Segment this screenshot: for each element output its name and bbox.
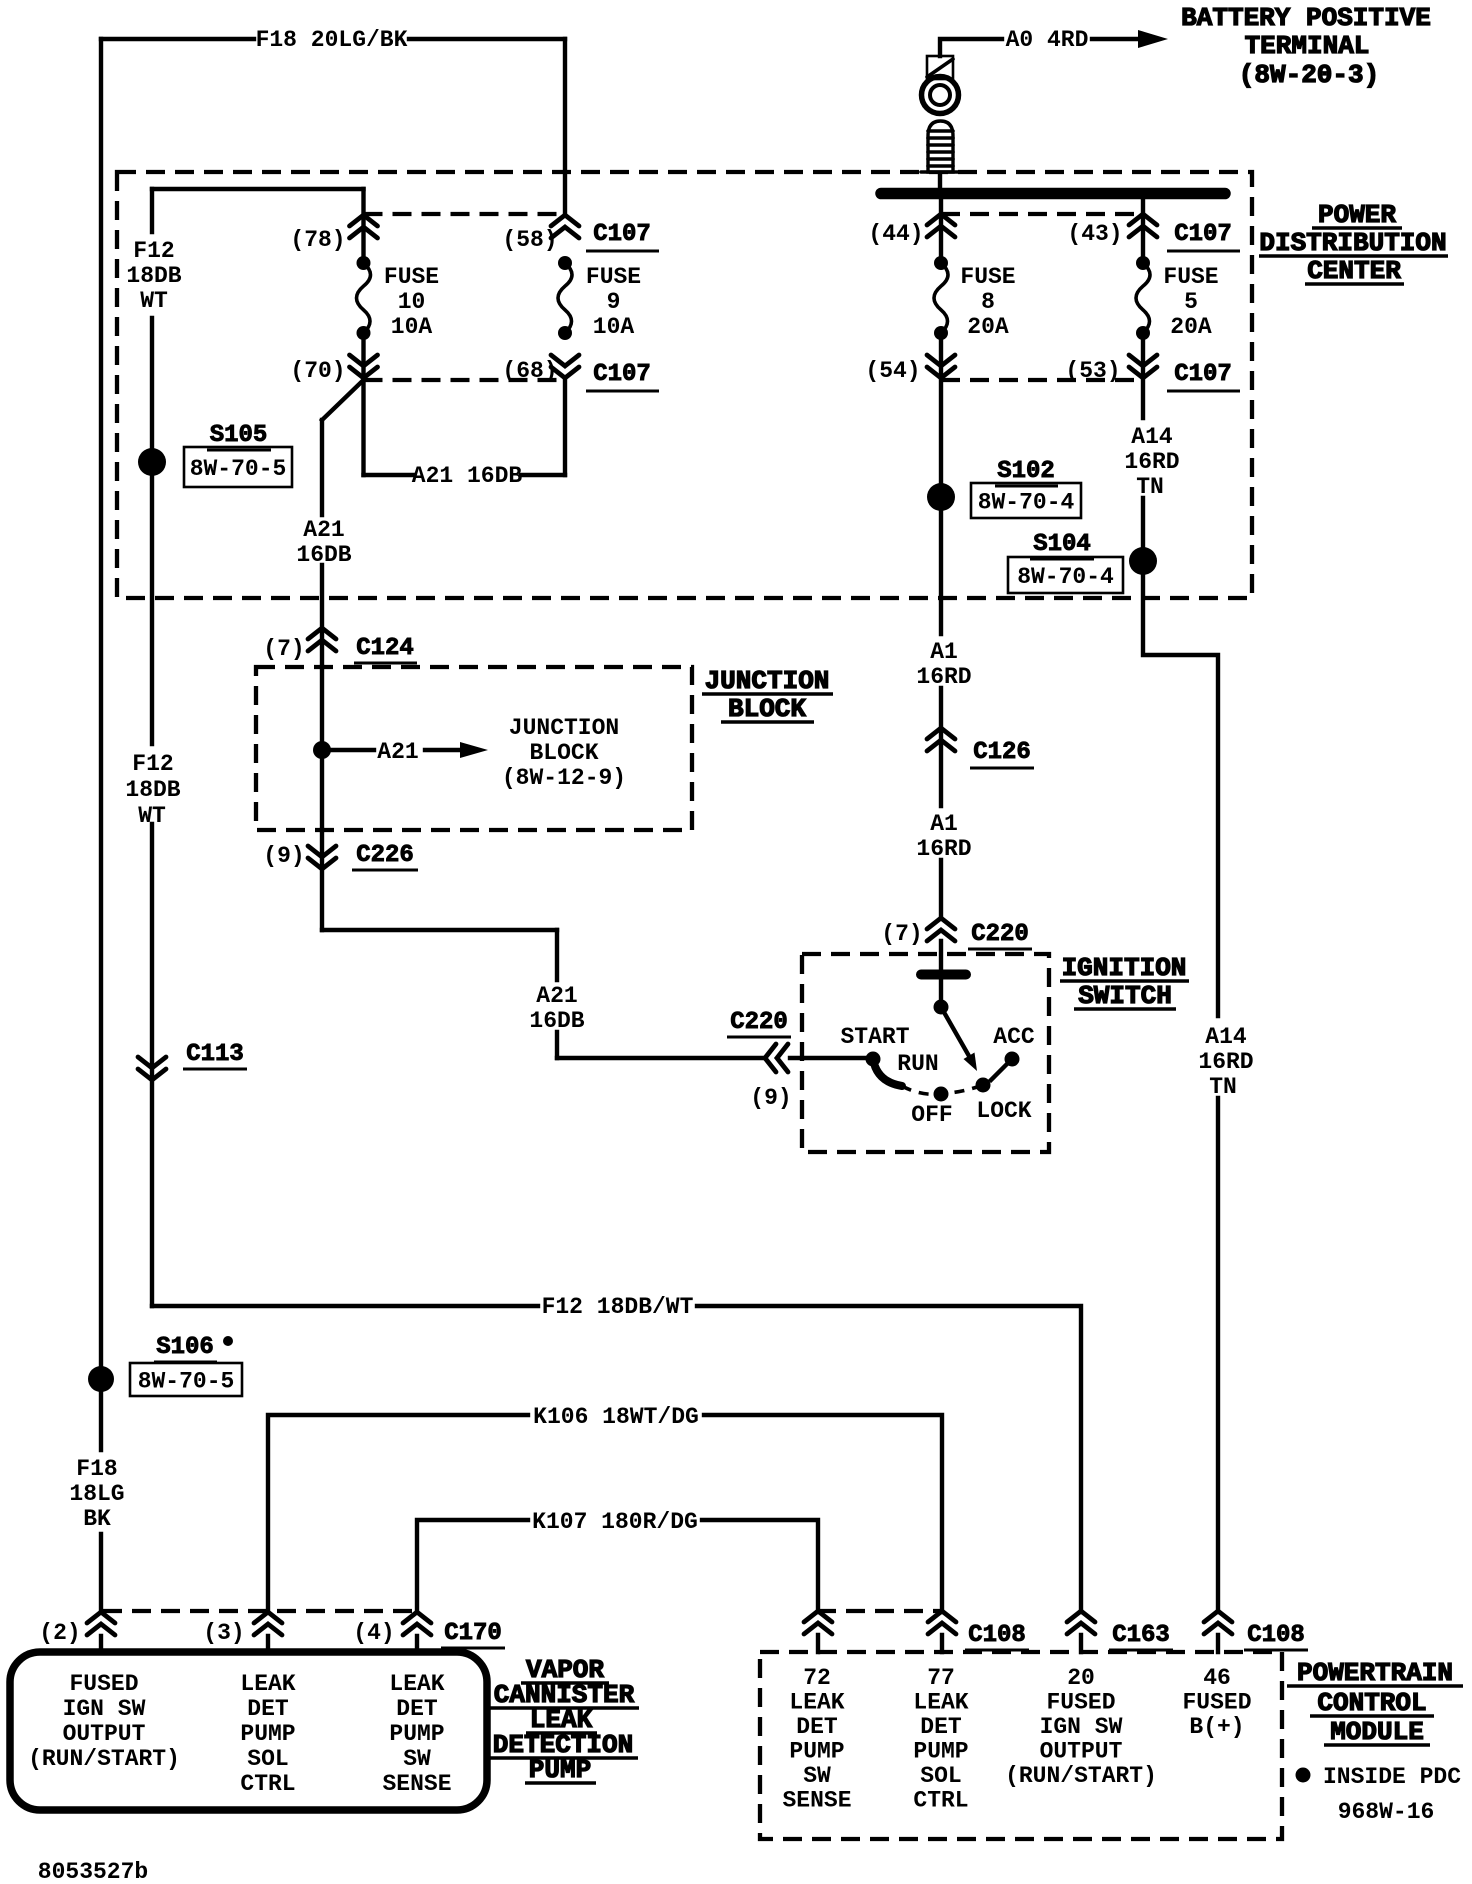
svg-text:46: 46: [1203, 1665, 1231, 1691]
svg-text:20A: 20A: [967, 314, 1009, 340]
svg-text:F18 20LG/BK: F18 20LG/BK: [256, 27, 408, 53]
svg-text:SW: SW: [803, 1763, 831, 1789]
svg-text:18LG: 18LG: [69, 1481, 124, 1507]
svg-text:C107: C107: [593, 361, 651, 388]
svg-text:SENSE: SENSE: [782, 1788, 851, 1814]
ignition switch LOCK contact: [976, 1078, 991, 1093]
svg-text:16DB: 16DB: [529, 1008, 584, 1034]
svg-text:16DB: 16DB: [296, 542, 351, 568]
wire stubs into PCM box: [818, 1635, 1218, 1652]
connector C108 dashed line: [817, 1609, 941, 1613]
svg-text:FUSE: FUSE: [384, 264, 439, 290]
splice S105: [138, 448, 166, 476]
svg-text:TN: TN: [1136, 474, 1164, 500]
svg-text:16RD: 16RD: [1124, 449, 1179, 475]
svg-text:LEAK: LEAK: [789, 1690, 844, 1716]
svg-text:PUMP: PUMP: [913, 1739, 968, 1765]
svg-text:LOCK: LOCK: [976, 1098, 1031, 1124]
ignition switch box: [802, 954, 1049, 1152]
svg-text:B(+): B(+): [1189, 1714, 1244, 1740]
connector C226: [308, 846, 336, 869]
wire A21 16DB vertical to junction block: [320, 420, 324, 667]
svg-text:A21: A21: [536, 983, 577, 1009]
connector C107 pin 53: [1129, 355, 1157, 378]
svg-text:PUMP: PUMP: [389, 1721, 444, 1747]
svg-text:MODULE: MODULE: [1330, 1717, 1424, 1747]
svg-text:FUSE: FUSE: [1163, 264, 1218, 290]
svg-text:DET: DET: [247, 1696, 289, 1722]
svg-text:9: 9: [607, 289, 621, 315]
svg-text:(70): (70): [290, 358, 345, 384]
svg-text:(3): (3): [203, 1620, 244, 1646]
wire fuse9 feed vertical: [563, 39, 567, 215]
battery terminal crimp: [927, 56, 953, 79]
svg-text:C126: C126: [973, 739, 1031, 766]
svg-text:F12 18DB/WT: F12 18DB/WT: [542, 1294, 694, 1320]
svg-text:S105: S105: [210, 422, 268, 449]
svg-text:A0 4RD: A0 4RD: [1006, 27, 1089, 53]
svg-text:CONTROL: CONTROL: [1317, 1688, 1426, 1718]
wire A21 to ignition switch horizontal: [557, 1056, 873, 1060]
connector C107 pin 44: [927, 214, 955, 237]
svg-text:START: START: [840, 1024, 909, 1050]
svg-text:BK: BK: [83, 1506, 111, 1532]
svg-text:IGN SW: IGN SW: [63, 1696, 146, 1722]
fuse 5: [1136, 256, 1150, 270]
svg-text:C107: C107: [1174, 361, 1232, 388]
wire fuse9 lower vertical: [563, 380, 567, 475]
fuse 8: [934, 256, 948, 270]
svg-text:K106 18WT/DG: K106 18WT/DG: [533, 1404, 699, 1430]
svg-text:A1: A1: [930, 639, 958, 665]
svg-text:RUN: RUN: [897, 1051, 938, 1077]
connector C108 pin 77: [928, 1611, 956, 1634]
svg-text:(68): (68): [502, 358, 557, 384]
connector C163 pin 20: [1067, 1611, 1095, 1634]
fuse 10: [357, 256, 371, 270]
connector C107 pin 43: [1129, 214, 1157, 237]
bus bar in PDC: [881, 188, 1225, 200]
svg-text:C163: C163: [1112, 1622, 1170, 1649]
wire A21 through junction block: [320, 667, 324, 830]
svg-text:C107: C107: [1174, 221, 1232, 248]
splice S106: [88, 1366, 114, 1392]
svg-text:(9): (9): [750, 1085, 791, 1111]
svg-text:A21: A21: [303, 517, 344, 543]
svg-text:CTRL: CTRL: [240, 1771, 295, 1797]
svg-text:(43): (43): [1067, 221, 1122, 247]
svg-text:5: 5: [1184, 289, 1198, 315]
fuse 9: [558, 256, 572, 270]
battery terminal boot: [928, 121, 953, 172]
svg-text:A1: A1: [930, 811, 958, 837]
arrow to battery positive terminal: [1138, 30, 1168, 48]
svg-text:SENSE: SENSE: [382, 1771, 451, 1797]
connector C107 pin 70: [350, 355, 378, 378]
wire fuse10 branch vertical: [361, 189, 365, 475]
ignition switch ACC-LOCK link: [991, 1059, 1012, 1080]
ignition switch ACC contact: [1005, 1052, 1020, 1067]
wire F12 18DB WT vertical: [150, 189, 154, 1306]
svg-text:16RD: 16RD: [916, 664, 971, 690]
connector C107 dashed line upper right: [941, 212, 1143, 216]
svg-text:C220: C220: [730, 1009, 788, 1036]
svg-text:(9): (9): [263, 843, 304, 869]
junction block box: [256, 667, 692, 830]
svg-text:20A: 20A: [1170, 314, 1212, 340]
connector C113: [138, 1057, 166, 1080]
connector C170 dashed line: [103, 1609, 417, 1613]
svg-text:S106: S106: [156, 1334, 214, 1361]
ignition switch contact bar: [921, 970, 966, 980]
svg-text:PUMP: PUMP: [529, 1755, 591, 1785]
svg-text:10A: 10A: [593, 314, 635, 340]
svg-text:(7): (7): [881, 921, 922, 947]
connector C170 pin 4: [403, 1612, 431, 1635]
svg-text:BLOCK: BLOCK: [529, 740, 598, 766]
svg-text:IGN SW: IGN SW: [1040, 1714, 1123, 1740]
svg-text:F18: F18: [76, 1456, 117, 1482]
svg-text:10: 10: [398, 289, 426, 315]
svg-text:18DB: 18DB: [126, 263, 181, 289]
ignition switch OFF contact: [934, 1087, 949, 1102]
battery terminal ring: [922, 77, 959, 114]
svg-text:8W-70-4: 8W-70-4: [978, 490, 1075, 516]
svg-text:BLOCK: BLOCK: [728, 694, 806, 724]
connector C107 dashed line lower right: [941, 378, 1143, 382]
svg-text:(4): (4): [353, 1620, 394, 1646]
svg-text:A14: A14: [1205, 1024, 1247, 1050]
svg-text:16RD: 16RD: [1198, 1049, 1253, 1075]
svg-text:DISTRIBUTION: DISTRIBUTION: [1259, 228, 1446, 258]
connector C124: [308, 628, 336, 651]
ignition switch pivot: [934, 1000, 949, 1015]
svg-text:8053527b: 8053527b: [38, 1859, 148, 1884]
power distribution center box: [117, 172, 1252, 598]
svg-text:18DB: 18DB: [125, 777, 180, 803]
svg-text:OFF: OFF: [911, 1102, 952, 1128]
svg-text:C107: C107: [593, 221, 651, 248]
wire A21 diagonal jog: [322, 380, 364, 420]
vapor cannister leak detection pump box: [10, 1652, 487, 1810]
svg-text:BATTERY POSITIVE: BATTERY POSITIVE: [1181, 3, 1431, 33]
svg-text:8W-70-5: 8W-70-5: [190, 456, 287, 482]
svg-text:C220: C220: [971, 921, 1029, 948]
wire F12 feed to fuse10 horizontal: [152, 187, 364, 191]
svg-text:OUTPUT: OUTPUT: [1040, 1739, 1123, 1765]
svg-text:C124: C124: [356, 635, 414, 662]
svg-text:WT: WT: [140, 288, 168, 314]
svg-text:K107 180R/DG: K107 180R/DG: [532, 1509, 698, 1535]
connector C220 pin 7: [927, 918, 955, 941]
connector C107 dashed line lower left: [364, 378, 566, 382]
svg-text:C226: C226: [356, 842, 414, 869]
svg-text:CTRL: CTRL: [913, 1788, 968, 1814]
svg-text:TERMINAL: TERMINAL: [1245, 31, 1370, 61]
svg-text:POWERTRAIN: POWERTRAIN: [1297, 1658, 1453, 1688]
svg-text:SOL: SOL: [920, 1763, 961, 1789]
svg-text:20: 20: [1067, 1665, 1095, 1691]
svg-text:(53): (53): [1065, 358, 1120, 384]
svg-text:(2): (2): [39, 1620, 80, 1646]
svg-text:(58): (58): [502, 227, 557, 253]
svg-text:PUMP: PUMP: [789, 1739, 844, 1765]
svg-text:10A: 10A: [391, 314, 433, 340]
svg-text:LEAK: LEAK: [240, 1671, 295, 1697]
wire A1 fuse8 branch: [939, 199, 943, 970]
ignition switch rotor wire: [939, 980, 943, 1007]
svg-text:C108: C108: [968, 1622, 1026, 1649]
wire K107 180R/DG: [417, 1520, 818, 1612]
wire F18 20LG/BK top horizontal: [101, 37, 565, 41]
svg-text:WT: WT: [138, 803, 166, 829]
junction block arrow: [331, 748, 462, 752]
svg-text:TN: TN: [1209, 1074, 1237, 1100]
svg-text:CENTER: CENTER: [1307, 256, 1401, 286]
svg-text:F12: F12: [132, 751, 173, 777]
wire A21 horizontal jog: [322, 928, 557, 932]
wire F12 18DB/WT horizontal to PCM: [152, 1306, 1081, 1612]
svg-text:LEAK: LEAK: [389, 1671, 444, 1697]
ignition switch wiper arm: [941, 1007, 969, 1056]
splice S102: [927, 483, 955, 511]
svg-text:LEAK: LEAK: [913, 1690, 968, 1716]
svg-text:S104: S104: [1033, 531, 1091, 558]
svg-text:16RD: 16RD: [916, 836, 971, 862]
svg-text:IGNITION: IGNITION: [1062, 953, 1187, 983]
svg-text:(7): (7): [263, 636, 304, 662]
svg-text:(RUN/START): (RUN/START): [1005, 1763, 1157, 1789]
battery terminal base: [921, 170, 959, 174]
junction block splice dot: [313, 741, 331, 759]
ignition switch START contact: [866, 1052, 881, 1067]
wire A0 4RD battery lead: [940, 39, 1150, 56]
svg-text:PUMP: PUMP: [240, 1721, 295, 1747]
ignition switch dashed detent arc: [902, 1085, 983, 1094]
connector C170 pin 2: [87, 1612, 115, 1635]
connector C107 pin 58: [551, 215, 579, 238]
svg-text:8W-70-5: 8W-70-5: [138, 1369, 235, 1395]
wire K106 18WT/DG: [268, 1415, 942, 1612]
wire stubs into vapor pump box: [101, 1636, 417, 1652]
connector C170 pin 3: [254, 1612, 282, 1635]
wire A14 fuse5 branch: [1143, 199, 1218, 1612]
svg-text:INSIDE PDC: INSIDE PDC: [1323, 1764, 1461, 1790]
svg-text:968W-16: 968W-16: [1338, 1799, 1435, 1825]
svg-text:C108: C108: [1247, 1622, 1305, 1649]
wire battery feed to bus: [938, 172, 942, 193]
svg-text:A21: A21: [377, 739, 418, 765]
svg-text:F12: F12: [133, 238, 174, 264]
svg-text:77: 77: [927, 1665, 955, 1691]
svg-text:(78): (78): [290, 227, 345, 253]
svg-text:DET: DET: [396, 1696, 438, 1722]
svg-text:C113: C113: [186, 1041, 244, 1068]
svg-text:(RUN/START): (RUN/START): [28, 1746, 180, 1772]
wire A21 16DB vertical to ignition: [555, 930, 559, 1058]
connector C107 pin 54: [927, 355, 955, 378]
svg-text:FUSED: FUSED: [69, 1671, 138, 1697]
svg-text:FUSED: FUSED: [1182, 1690, 1251, 1716]
svg-text:DET: DET: [920, 1714, 962, 1740]
connector C220 pin 9: [765, 1044, 788, 1072]
connector C126: [927, 728, 955, 751]
svg-text:DET: DET: [796, 1714, 838, 1740]
wire A21 below C226: [320, 830, 324, 930]
svg-text:FUSE: FUSE: [586, 264, 641, 290]
svg-text:SOL: SOL: [247, 1746, 288, 1772]
powertrain control module box: [760, 1652, 1282, 1839]
connector C107 dashed line upper left: [364, 212, 566, 216]
svg-text:SW: SW: [403, 1746, 431, 1772]
splice S104: [1129, 547, 1157, 575]
svg-text:FUSE: FUSE: [960, 264, 1015, 290]
svg-text:S102: S102: [997, 458, 1055, 485]
svg-text:72: 72: [803, 1665, 831, 1691]
svg-text:(44): (44): [868, 221, 923, 247]
svg-text:(8W-12-9): (8W-12-9): [502, 765, 626, 791]
svg-text:POWER: POWER: [1318, 200, 1396, 230]
svg-text:JUNCTION: JUNCTION: [705, 666, 830, 696]
connector C108 pin 46: [1204, 1611, 1232, 1634]
connector C107 pin 68: [551, 355, 579, 378]
svg-text:8W-70-4: 8W-70-4: [1017, 564, 1114, 590]
connector C107 pin 78: [350, 215, 378, 238]
svg-text:A14: A14: [1131, 424, 1173, 450]
svg-text:(54): (54): [865, 358, 920, 384]
wire A21 16DB bridge horizontal: [364, 473, 566, 477]
svg-text:8: 8: [981, 289, 995, 315]
svg-text:JUNCTION: JUNCTION: [509, 715, 619, 741]
svg-text:FUSED: FUSED: [1046, 1690, 1115, 1716]
inside PDC note: [1296, 1768, 1311, 1783]
svg-text:OUTPUT: OUTPUT: [63, 1721, 146, 1747]
svg-text:ACC: ACC: [993, 1024, 1035, 1050]
ignition switch thick wiper arc: [873, 1059, 902, 1086]
connector C108 pin 72: [804, 1611, 832, 1634]
svg-text:A21 16DB: A21 16DB: [412, 463, 523, 489]
svg-text:C170: C170: [444, 1620, 502, 1647]
svg-text:(8W-20-3): (8W-20-3): [1239, 60, 1379, 90]
svg-text:SWITCH: SWITCH: [1078, 981, 1172, 1011]
wire F18 left vertical: [99, 39, 103, 1612]
